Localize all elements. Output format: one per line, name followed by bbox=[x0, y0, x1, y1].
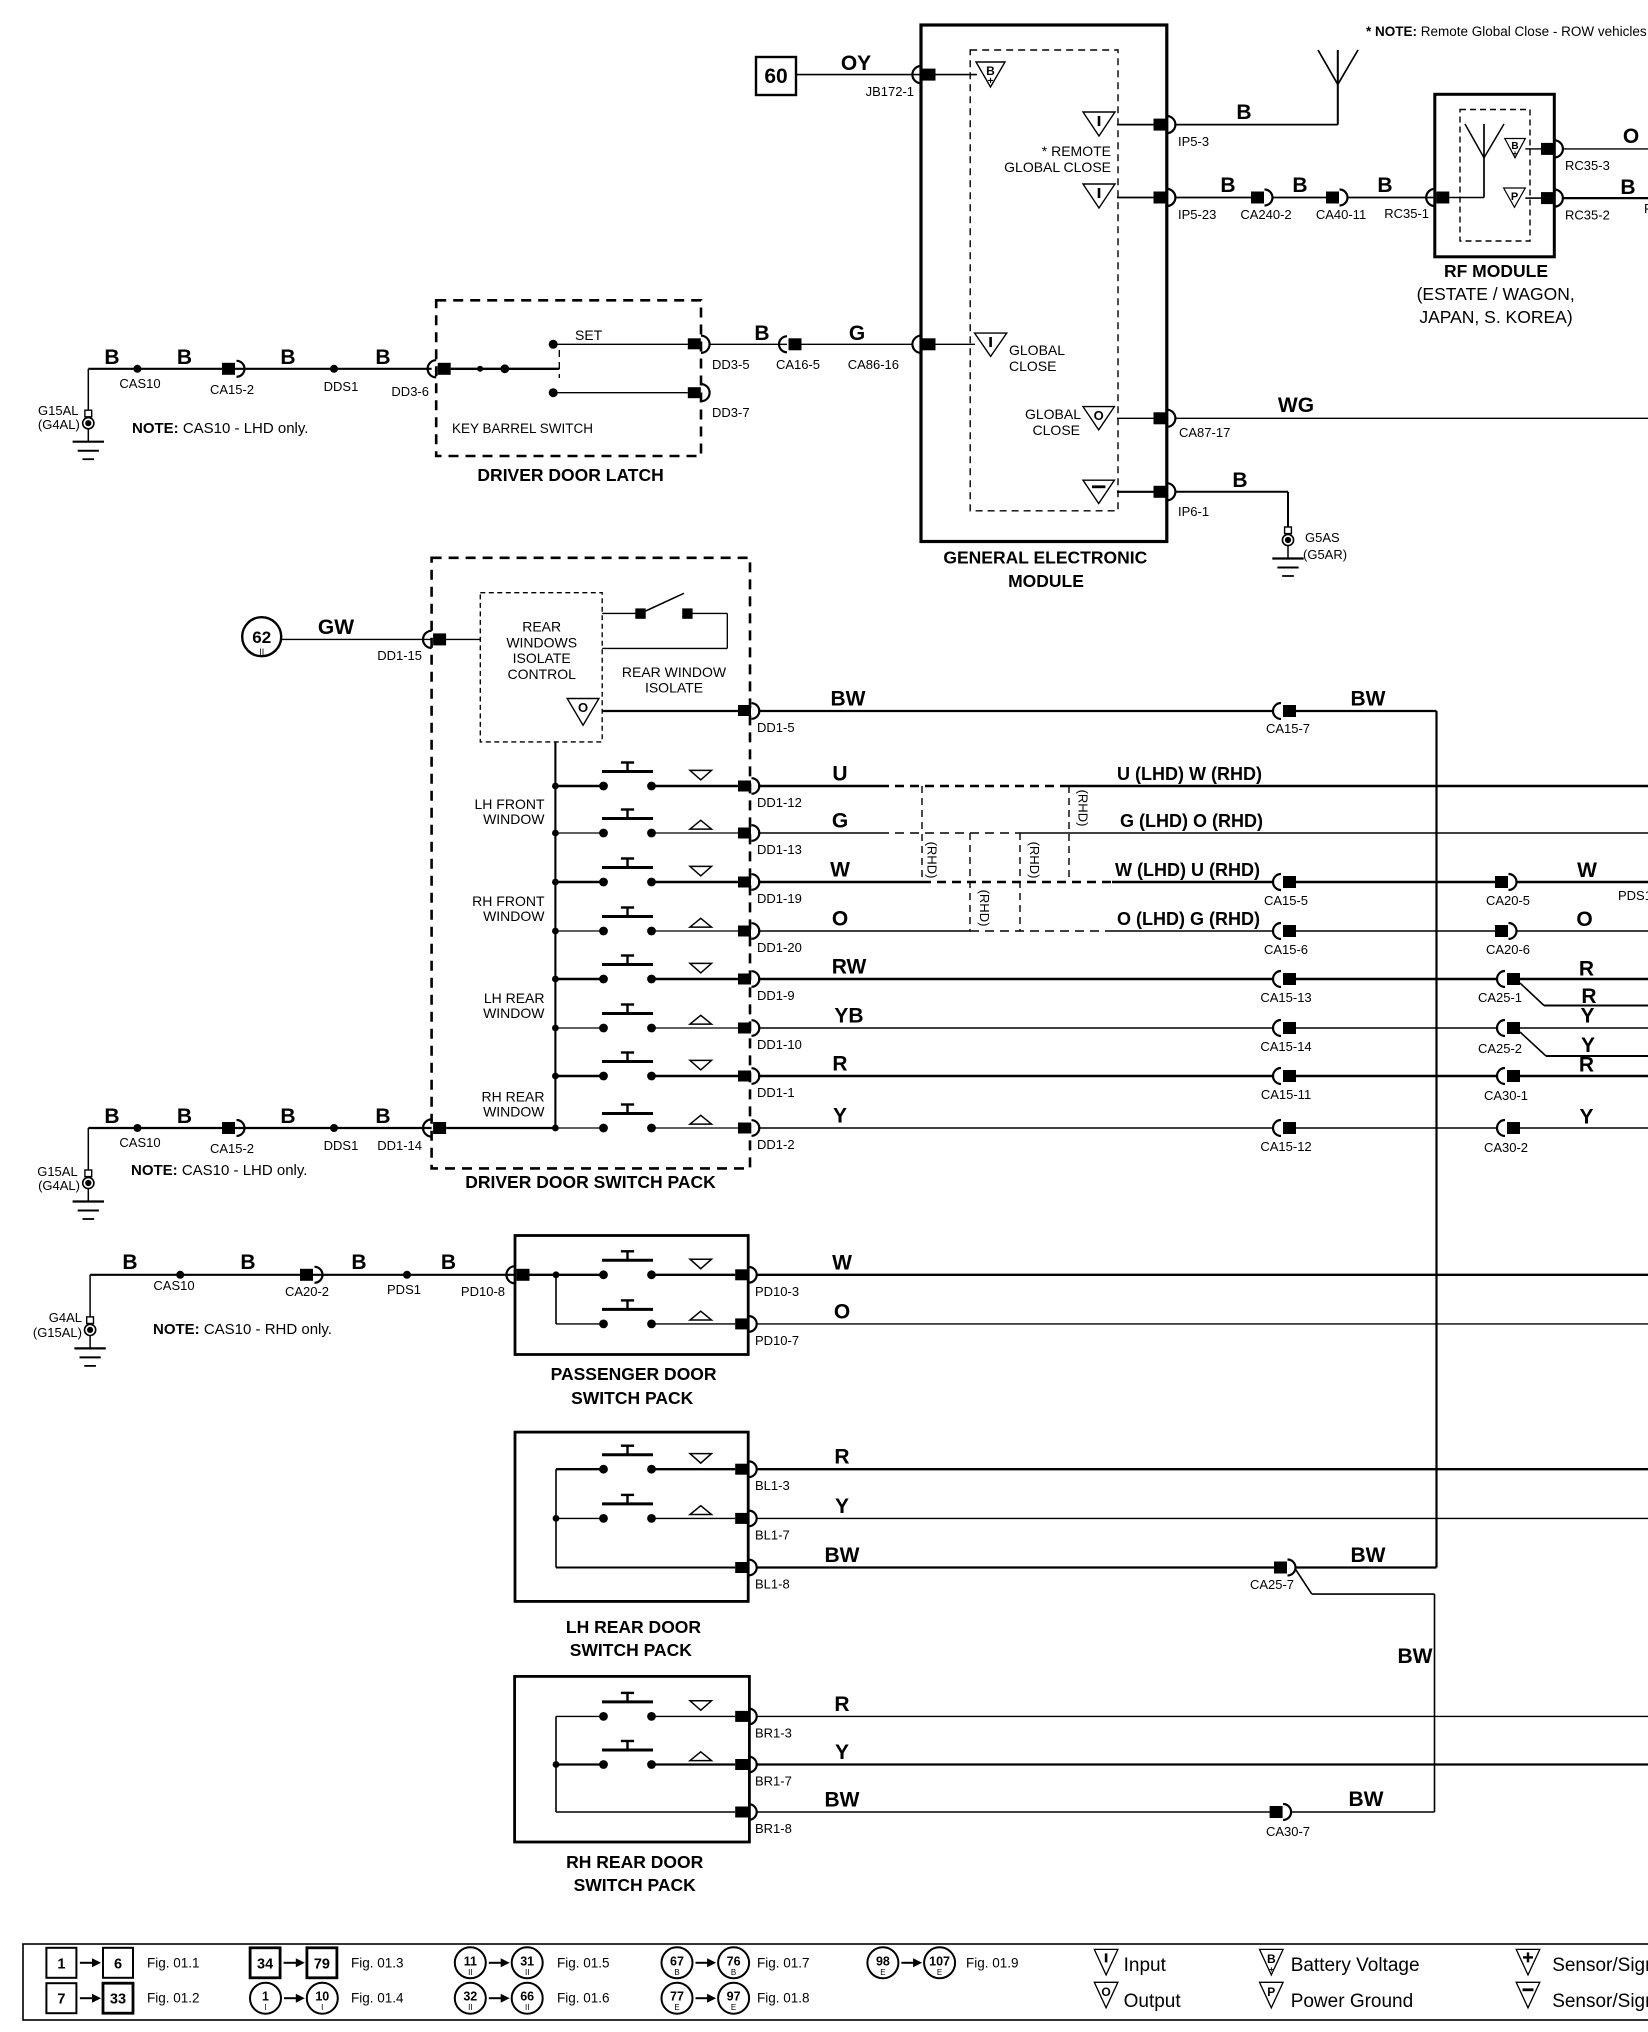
svg-text:II: II bbox=[468, 1968, 472, 1977]
svg-text:E: E bbox=[880, 1968, 885, 1977]
svg-text:W: W bbox=[1577, 859, 1597, 882]
svg-text:DD3-7: DD3-7 bbox=[712, 405, 750, 420]
svg-text:B: B bbox=[177, 346, 192, 369]
svg-text:Fig. 01.6: Fig. 01.6 bbox=[557, 1991, 610, 2006]
svg-text:BW: BW bbox=[825, 1789, 860, 1812]
svg-text:B: B bbox=[177, 1105, 192, 1128]
svg-text:IP5-3: IP5-3 bbox=[1178, 134, 1209, 149]
svg-text:CAS10: CAS10 bbox=[119, 1135, 160, 1150]
svg-text:CA86-16: CA86-16 bbox=[848, 357, 899, 372]
svg-text:1: 1 bbox=[57, 1956, 65, 1972]
svg-text:B: B bbox=[1267, 1952, 1276, 1966]
svg-text:B: B bbox=[375, 1105, 390, 1128]
svg-text:(G4AL): (G4AL) bbox=[38, 1178, 80, 1193]
svg-text:Fig. 01.7: Fig. 01.7 bbox=[757, 1955, 810, 1970]
svg-text:B: B bbox=[441, 1251, 456, 1274]
svg-text:O: O bbox=[1576, 908, 1592, 931]
svg-text:Sensor/Signal: Sensor/Signal bbox=[1552, 1955, 1648, 1976]
svg-text:CA15-13: CA15-13 bbox=[1260, 990, 1311, 1005]
svg-text:CA20-2: CA20-2 bbox=[285, 1284, 329, 1299]
svg-text:Fig. 01.2: Fig. 01.2 bbox=[147, 1991, 200, 2006]
svg-text:RH REAR DOOR: RH REAR DOOR bbox=[566, 1852, 703, 1872]
svg-text:DD1-19: DD1-19 bbox=[757, 891, 802, 906]
svg-text:GENERAL ELECTRONIC: GENERAL ELECTRONIC bbox=[943, 548, 1147, 568]
svg-text:II: II bbox=[525, 2003, 529, 2012]
svg-text:Fig. 01.4: Fig. 01.4 bbox=[351, 1991, 404, 2006]
svg-text:CA25-1: CA25-1 bbox=[1478, 990, 1522, 1005]
svg-text:32: 32 bbox=[463, 1990, 477, 2004]
svg-text:PDS1: PDS1 bbox=[387, 1282, 421, 1297]
svg-text:Output: Output bbox=[1124, 1991, 1182, 2012]
svg-text:BW: BW bbox=[831, 688, 866, 711]
svg-text:RC35-2: RC35-2 bbox=[1565, 208, 1610, 223]
svg-text:SWITCH PACK: SWITCH PACK bbox=[570, 1640, 693, 1660]
svg-text:B: B bbox=[104, 1105, 119, 1128]
svg-text:CAS10: CAS10 bbox=[153, 1278, 194, 1293]
svg-text:B: B bbox=[280, 1105, 295, 1128]
svg-text:Fig. 01.3: Fig. 01.3 bbox=[351, 1955, 404, 1970]
svg-text:DD3-6: DD3-6 bbox=[391, 384, 429, 399]
svg-text:LH FRONT: LH FRONT bbox=[475, 796, 545, 812]
svg-text:+: + bbox=[988, 76, 994, 87]
svg-text:E: E bbox=[731, 2003, 736, 2012]
svg-text:CA20-5: CA20-5 bbox=[1486, 893, 1530, 908]
svg-text:62: 62 bbox=[252, 628, 271, 647]
svg-text:WINDOW: WINDOW bbox=[483, 1104, 545, 1120]
svg-text:DD1-14: DD1-14 bbox=[377, 1138, 422, 1153]
svg-text:GW: GW bbox=[318, 616, 354, 639]
svg-text:CA30-7: CA30-7 bbox=[1266, 1824, 1310, 1839]
svg-text:DD1-2: DD1-2 bbox=[757, 1137, 795, 1152]
svg-text:YB: YB bbox=[834, 1005, 863, 1028]
svg-text:Fig. 01.8: Fig. 01.8 bbox=[757, 1991, 810, 2006]
svg-text:CA16-5: CA16-5 bbox=[776, 357, 820, 372]
svg-text:BR1-8: BR1-8 bbox=[755, 1821, 792, 1836]
svg-text:97: 97 bbox=[727, 1990, 741, 2004]
svg-text:NOTE: CAS10 - LHD only.: NOTE: CAS10 - LHD only. bbox=[132, 420, 308, 437]
svg-text:CA15-5: CA15-5 bbox=[1264, 893, 1308, 908]
svg-text:R: R bbox=[832, 1053, 847, 1076]
svg-text:CA40-11: CA40-11 bbox=[1316, 207, 1366, 222]
svg-text:PD10-8: PD10-8 bbox=[461, 1284, 505, 1299]
svg-text:Fig. 01.1: Fig. 01.1 bbox=[147, 1955, 200, 1970]
svg-text:Input: Input bbox=[1124, 1955, 1167, 1976]
svg-text:CA15-14: CA15-14 bbox=[1260, 1039, 1311, 1054]
svg-text:BW: BW bbox=[1349, 1788, 1384, 1811]
svg-text:RC35-1: RC35-1 bbox=[1384, 206, 1429, 221]
svg-text:CA15-6: CA15-6 bbox=[1264, 942, 1308, 957]
svg-text:G: G bbox=[849, 322, 865, 345]
svg-text:II: II bbox=[525, 1968, 529, 1977]
svg-text:U: U bbox=[832, 763, 847, 786]
svg-text:CA25-2: CA25-2 bbox=[1478, 1041, 1522, 1056]
svg-text:PDS1: PDS1 bbox=[1618, 888, 1648, 903]
svg-text:CA20-6: CA20-6 bbox=[1486, 942, 1530, 957]
svg-text:CA15-11: CA15-11 bbox=[1261, 1087, 1311, 1102]
svg-text:II: II bbox=[468, 2003, 472, 2012]
svg-text:DD1-20: DD1-20 bbox=[757, 940, 802, 955]
svg-text:G4AL: G4AL bbox=[49, 1310, 82, 1325]
svg-text:CA30-2: CA30-2 bbox=[1484, 1140, 1528, 1155]
svg-text:CAS10: CAS10 bbox=[119, 376, 160, 391]
svg-text:CONTROL: CONTROL bbox=[507, 666, 576, 682]
svg-text:76: 76 bbox=[727, 1954, 741, 1968]
svg-text:R: R bbox=[834, 1693, 849, 1716]
svg-text:O (LHD) G (RHD): O (LHD) G (RHD) bbox=[1117, 909, 1260, 929]
svg-text:DD1-13: DD1-13 bbox=[757, 842, 802, 857]
svg-text:KEY BARREL SWITCH: KEY BARREL SWITCH bbox=[452, 421, 593, 436]
svg-text:GLOBAL: GLOBAL bbox=[1009, 342, 1065, 358]
svg-text:77: 77 bbox=[670, 1990, 684, 2004]
svg-text:E: E bbox=[674, 2003, 679, 2012]
svg-text:P: P bbox=[1267, 1985, 1275, 1999]
svg-text:10: 10 bbox=[315, 1990, 329, 2004]
svg-text:6: 6 bbox=[114, 1956, 122, 1972]
svg-text:B: B bbox=[1620, 176, 1635, 199]
svg-text:B: B bbox=[1232, 469, 1247, 492]
svg-text:B: B bbox=[1220, 174, 1235, 197]
svg-text:O: O bbox=[1623, 125, 1639, 148]
svg-text:O: O bbox=[1101, 1985, 1110, 1999]
svg-text:107: 107 bbox=[929, 1954, 950, 1968]
svg-text:G: G bbox=[832, 810, 848, 833]
svg-text:+: + bbox=[1513, 149, 1518, 158]
svg-text:B: B bbox=[122, 1251, 137, 1274]
svg-text:W: W bbox=[832, 1251, 852, 1274]
svg-text:1: 1 bbox=[262, 1990, 269, 2004]
svg-text:B: B bbox=[1292, 174, 1307, 197]
svg-text:BR1-3: BR1-3 bbox=[755, 1725, 792, 1740]
svg-text:I: I bbox=[321, 2003, 323, 2012]
svg-text:G15AL: G15AL bbox=[38, 403, 78, 418]
svg-text:CA87-17: CA87-17 bbox=[1179, 425, 1230, 440]
svg-text:BL1-3: BL1-3 bbox=[755, 1478, 790, 1493]
svg-text:R: R bbox=[834, 1446, 849, 1469]
svg-text:Y: Y bbox=[833, 1105, 847, 1128]
svg-text:Battery Voltage: Battery Voltage bbox=[1291, 1955, 1420, 1976]
svg-text:DD1-5: DD1-5 bbox=[757, 720, 795, 735]
svg-text:B: B bbox=[1377, 174, 1392, 197]
svg-text:P: P bbox=[1511, 191, 1518, 203]
svg-text:DD3-5: DD3-5 bbox=[712, 357, 750, 372]
svg-text:B: B bbox=[280, 346, 295, 369]
svg-text:WG: WG bbox=[1278, 394, 1314, 417]
svg-text:BW: BW bbox=[825, 1544, 860, 1567]
svg-text:DD1-15: DD1-15 bbox=[377, 648, 422, 663]
svg-text:GLOBAL: GLOBAL bbox=[1025, 406, 1081, 422]
svg-text:SWITCH PACK: SWITCH PACK bbox=[571, 1388, 694, 1408]
svg-text:Y: Y bbox=[1580, 1005, 1594, 1028]
svg-text:CA30-1: CA30-1 bbox=[1484, 1088, 1528, 1103]
svg-text:RH FRONT: RH FRONT bbox=[472, 893, 545, 909]
svg-text:Fig. 01.9: Fig. 01.9 bbox=[966, 1955, 1019, 1970]
svg-text:DD1-10: DD1-10 bbox=[757, 1037, 802, 1052]
svg-text:CA15-12: CA15-12 bbox=[1260, 1139, 1311, 1154]
svg-text:WINDOW: WINDOW bbox=[483, 811, 545, 827]
svg-text:SET: SET bbox=[575, 327, 603, 343]
svg-text:PD10-3: PD10-3 bbox=[755, 1284, 799, 1299]
svg-text:II: II bbox=[259, 647, 264, 657]
svg-text:(ESTATE / WAGON,: (ESTATE / WAGON, bbox=[1417, 284, 1575, 304]
svg-text:60: 60 bbox=[764, 65, 787, 88]
svg-text:DRIVER DOOR LATCH: DRIVER DOOR LATCH bbox=[477, 465, 663, 485]
svg-text:CLOSE: CLOSE bbox=[1009, 358, 1056, 374]
svg-text:B: B bbox=[104, 346, 119, 369]
svg-text:JB172-1: JB172-1 bbox=[866, 84, 914, 99]
svg-text:Sensor/Signal: Sensor/Signal bbox=[1552, 1991, 1648, 2012]
svg-text:(G5AR): (G5AR) bbox=[1303, 547, 1347, 562]
svg-text:B: B bbox=[1236, 101, 1251, 124]
svg-text:RH REAR: RH REAR bbox=[481, 1089, 544, 1105]
svg-text:(RHD): (RHD) bbox=[977, 890, 992, 927]
svg-text:BL1-8: BL1-8 bbox=[755, 1577, 790, 1592]
svg-text:R: R bbox=[1579, 958, 1594, 981]
svg-text:+: + bbox=[1269, 1965, 1274, 1974]
svg-text:MODULE: MODULE bbox=[1008, 571, 1084, 591]
svg-text:R: R bbox=[1579, 1054, 1594, 1077]
svg-text:Y: Y bbox=[1579, 1106, 1593, 1129]
svg-text:WINDOW: WINDOW bbox=[483, 1005, 545, 1021]
svg-text:98: 98 bbox=[876, 1954, 890, 1968]
svg-text:I: I bbox=[264, 2003, 266, 2012]
svg-text:U (LHD) W (RHD): U (LHD) W (RHD) bbox=[1117, 764, 1262, 784]
svg-text:BR1-7: BR1-7 bbox=[755, 1774, 792, 1789]
svg-text:WINDOW: WINDOW bbox=[483, 908, 545, 924]
svg-text:CA15-7: CA15-7 bbox=[1266, 721, 1310, 736]
svg-text:O: O bbox=[834, 1300, 850, 1323]
svg-text:Fig. 01.5: Fig. 01.5 bbox=[557, 1955, 610, 1970]
svg-text:RF MODULE: RF MODULE bbox=[1444, 261, 1548, 281]
svg-text:CLOSE: CLOSE bbox=[1033, 422, 1080, 438]
svg-text:* REMOTE: * REMOTE bbox=[1042, 143, 1111, 159]
svg-text:G (LHD) O (RHD): G (LHD) O (RHD) bbox=[1120, 811, 1263, 831]
svg-text:DDS1: DDS1 bbox=[324, 379, 359, 394]
svg-text:JAPAN, S. KOREA): JAPAN, S. KOREA) bbox=[1419, 307, 1572, 327]
svg-text:ISOLATE: ISOLATE bbox=[645, 680, 703, 696]
svg-text:Y: Y bbox=[835, 1495, 849, 1518]
svg-text:7: 7 bbox=[57, 1992, 65, 2008]
svg-text:GLOBAL CLOSE: GLOBAL CLOSE bbox=[1004, 159, 1111, 175]
svg-text:CA15-2: CA15-2 bbox=[210, 1141, 254, 1156]
svg-text:O: O bbox=[578, 700, 588, 715]
svg-text:PASSENGER DOOR: PASSENGER DOOR bbox=[551, 1364, 717, 1384]
svg-text:DDS1: DDS1 bbox=[324, 1138, 359, 1153]
svg-text:DD1-12: DD1-12 bbox=[757, 795, 802, 810]
svg-text:BL1-7: BL1-7 bbox=[755, 1527, 790, 1542]
svg-text:REAR WINDOW: REAR WINDOW bbox=[622, 664, 727, 680]
svg-text:DRIVER DOOR SWITCH PACK: DRIVER DOOR SWITCH PACK bbox=[465, 1172, 716, 1192]
svg-text:(RHD): (RHD) bbox=[1027, 842, 1042, 879]
svg-text:34: 34 bbox=[257, 1956, 273, 1972]
svg-text:G5AS: G5AS bbox=[1305, 530, 1340, 545]
svg-text:G15AL: G15AL bbox=[37, 1164, 77, 1179]
svg-text:CA25-7: CA25-7 bbox=[1250, 1577, 1294, 1592]
svg-text:79: 79 bbox=[314, 1956, 330, 1972]
svg-text:(RHD): (RHD) bbox=[1076, 790, 1091, 827]
svg-text:W (LHD) U (RHD): W (LHD) U (RHD) bbox=[1115, 860, 1260, 880]
svg-text:Power Ground: Power Ground bbox=[1291, 1991, 1414, 2012]
svg-text:OY: OY bbox=[841, 52, 871, 75]
svg-text:IP5-23: IP5-23 bbox=[1178, 207, 1216, 222]
svg-text:33: 33 bbox=[110, 1992, 126, 2008]
svg-text:DD1-9: DD1-9 bbox=[757, 988, 795, 1003]
svg-text:CA15-2: CA15-2 bbox=[210, 382, 254, 397]
svg-text:B: B bbox=[731, 1968, 736, 1977]
svg-text:F: F bbox=[1644, 201, 1648, 216]
svg-text:IP6-1: IP6-1 bbox=[1178, 504, 1209, 519]
svg-text:NOTE: CAS10 - LHD only.: NOTE: CAS10 - LHD only. bbox=[131, 1162, 307, 1179]
svg-text:CA240-2: CA240-2 bbox=[1240, 207, 1291, 222]
svg-text:E: E bbox=[937, 1968, 942, 1977]
svg-text:B: B bbox=[351, 1251, 366, 1274]
svg-text:BW: BW bbox=[1351, 688, 1386, 711]
svg-text:WINDOWS: WINDOWS bbox=[506, 634, 577, 650]
svg-text:ISOLATE: ISOLATE bbox=[513, 650, 571, 666]
svg-text:RW: RW bbox=[832, 956, 867, 979]
svg-text:B: B bbox=[240, 1251, 255, 1274]
svg-text:66: 66 bbox=[520, 1990, 534, 2004]
svg-text:REAR: REAR bbox=[522, 619, 561, 635]
svg-text:NOTE: CAS10 - RHD only.: NOTE: CAS10 - RHD only. bbox=[153, 1321, 332, 1338]
svg-text:PD10-7: PD10-7 bbox=[755, 1333, 799, 1348]
svg-text:B: B bbox=[754, 322, 769, 345]
svg-text:O: O bbox=[832, 908, 848, 931]
svg-text:O: O bbox=[1094, 408, 1104, 423]
svg-text:(G4AL): (G4AL) bbox=[38, 417, 80, 432]
svg-text:DD1-1: DD1-1 bbox=[757, 1085, 795, 1100]
svg-text:LH REAR: LH REAR bbox=[484, 990, 545, 1006]
svg-text:BW: BW bbox=[1398, 1645, 1433, 1668]
svg-text:SWITCH PACK: SWITCH PACK bbox=[574, 1875, 697, 1895]
svg-text:BW: BW bbox=[1351, 1544, 1386, 1567]
svg-text:B: B bbox=[375, 346, 390, 369]
svg-text:67: 67 bbox=[670, 1954, 684, 1968]
svg-text:LH REAR DOOR: LH REAR DOOR bbox=[566, 1617, 702, 1637]
svg-text:(G15AL): (G15AL) bbox=[33, 1325, 82, 1340]
svg-text:(RHD): (RHD) bbox=[925, 842, 940, 879]
svg-text:* NOTE: Remote Global Close -: * NOTE: Remote Global Close - ROW vehicl… bbox=[1366, 24, 1647, 39]
svg-text:W: W bbox=[830, 859, 850, 882]
svg-text:Y: Y bbox=[835, 1741, 849, 1764]
svg-text:31: 31 bbox=[520, 1954, 534, 1968]
svg-text:B: B bbox=[674, 1968, 679, 1977]
svg-text:11: 11 bbox=[464, 1954, 477, 1968]
svg-text:RC35-3: RC35-3 bbox=[1565, 158, 1610, 173]
